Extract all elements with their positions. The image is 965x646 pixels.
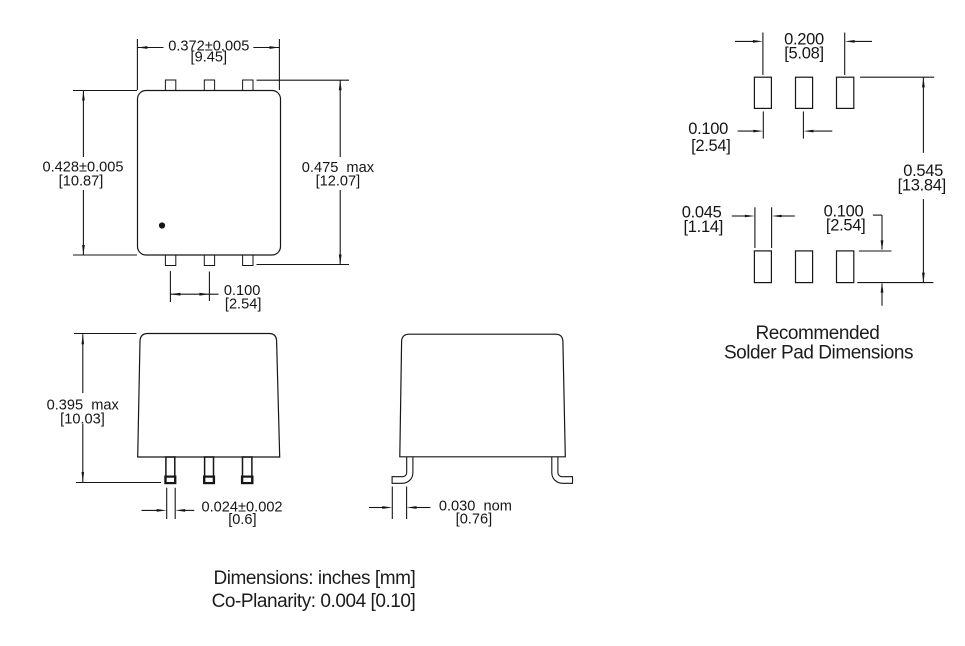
front view: lead 3 solder tip bbox=[242, 477, 252, 484]
solder pad bottom row: pad 5 bbox=[796, 251, 813, 283]
front view: lead 2 bbox=[205, 457, 214, 483]
dimension 0.428 height: bottom extension line bbox=[73, 254, 137, 256]
pad dimension 0.100 pad length: upward arrow below pad bottom bbox=[881, 284, 883, 306]
pad dimension 0.100 pitch: left arrow with tail bbox=[738, 130, 755, 132]
solder pad bottom row: pad 4 bbox=[754, 251, 771, 283]
pad dimension 0.545 row span: dimension line lower segment with arrow bbox=[922, 199, 924, 283]
dimension 0.395 max height: dimension line upper segment with arrow bbox=[82, 334, 84, 393]
front view: package body outline (tapered sides, rounded top) bbox=[138, 334, 280, 458]
dimension 0.030 lead thickness: right arrow with tail bbox=[416, 507, 431, 509]
solder pad top row: pad 3 bbox=[837, 77, 854, 108]
svg-text:[10.03]: [10.03] bbox=[60, 412, 105, 428]
svg-text:[2.54]: [2.54] bbox=[691, 137, 730, 155]
svg-text:Co-Planarity: 0.004 [0.10]: Co-Planarity: 0.004 [0.10] bbox=[212, 591, 416, 612]
svg-text:Solder Pad Dimensions: Solder Pad Dimensions bbox=[724, 342, 913, 363]
svg-text:[0.76]: [0.76] bbox=[456, 512, 493, 528]
top view: top lead 3 bbox=[243, 80, 253, 91]
dimension 0.100 lead pitch: right extension line bbox=[208, 272, 210, 302]
pad dimension 0.045 pad width: right extension line (pad4 right edge) bbox=[771, 207, 773, 248]
pad dimension 0.545 row span: top extension line bbox=[860, 76, 934, 78]
pad dimension 0.045 pad width: left arrow with tail bbox=[732, 215, 747, 217]
svg-text:[13.84]: [13.84] bbox=[898, 176, 946, 194]
svg-text:Recommended: Recommended bbox=[755, 323, 879, 344]
dimension 0.372 width: right extension line bbox=[278, 39, 280, 90]
dimension 0.475 max overall: bottom extension line bbox=[257, 264, 350, 266]
dimension 0.372 width: left arrow and tail bbox=[137, 47, 163, 49]
svg-text:[2.54]: [2.54] bbox=[826, 217, 865, 235]
top view: package body outline bbox=[138, 91, 281, 256]
svg-text:[1.14]: [1.14] bbox=[684, 218, 723, 236]
top view: top lead 2 bbox=[204, 80, 214, 91]
dimension 0.395 max height: top extension line bbox=[74, 333, 137, 335]
svg-text:Dimensions: inches [mm]: Dimensions: inches [mm] bbox=[213, 568, 415, 589]
solder pad top row: pad 2 bbox=[796, 77, 813, 108]
pad dimension 0.045 pad width: right arrow with tail bbox=[780, 215, 795, 217]
top view: bottom lead 2 bbox=[204, 255, 214, 266]
dimension 0.475 max overall: top extension line bbox=[257, 79, 350, 81]
front view: lead 1 bbox=[166, 457, 175, 483]
pad dimension 0.100 pad length: extension line at pad top bbox=[859, 250, 892, 252]
dimension 0.030 lead thickness: right extension line bbox=[406, 487, 408, 520]
solder pad bottom row: pad 6 bbox=[837, 251, 854, 283]
dimension 0.024 lead width: left extension line bbox=[166, 488, 168, 519]
svg-text:0.100: 0.100 bbox=[688, 120, 728, 138]
pad dimension 0.100 pitch: right extension line (pad2 center) bbox=[802, 112, 804, 139]
dimension 0.372 width: left extension line bbox=[136, 39, 138, 90]
dimension 0.475 max overall: dimension line lower segment with arrow bbox=[339, 190, 341, 265]
side view: right gull lead (bent outward right) bbox=[552, 457, 573, 483]
pad dimension 0.100 pitch: right arrow with tail bbox=[812, 130, 832, 132]
dimension 0.024 lead width: left arrow with tail bbox=[142, 509, 159, 511]
pad dimension 0.200 span: right extension line (pad3 center) bbox=[844, 33, 846, 76]
dimension 0.024 lead width: right arrow with tail bbox=[184, 509, 194, 511]
front view: lead 2 solder tip bbox=[204, 477, 214, 484]
top view: pin 1 indicator dot bbox=[159, 222, 165, 228]
dimension 0.024 lead width: right extension line bbox=[174, 488, 176, 519]
svg-text:[10.87]: [10.87] bbox=[59, 173, 104, 189]
pad dimension 0.200 span: left extension line (pad1 center) bbox=[762, 33, 764, 76]
dimension 0.030 lead thickness: left arrow with tail bbox=[369, 507, 384, 509]
dimension 0.395 max height: dimension line lower segment with arrow bbox=[82, 424, 84, 482]
pad dimension 0.200 span: right arrow with tail bbox=[854, 40, 873, 42]
svg-text:[9.45]: [9.45] bbox=[191, 50, 228, 66]
pad dimension 0.045 pad width: left extension line (pad4 left edge) bbox=[754, 207, 756, 248]
solder pad top row: pad 1 bbox=[754, 77, 771, 108]
pad dimension 0.100 pitch: left extension line (pad1 center) bbox=[762, 112, 764, 139]
svg-text:[5.08]: [5.08] bbox=[784, 45, 823, 63]
dimension 0.100 lead pitch: dimension line with arrows and tail bbox=[170, 293, 209, 295]
dimension 0.372 width: right arrow and tail bbox=[253, 47, 279, 49]
top view: bottom lead 3 bbox=[243, 255, 253, 266]
dimension 0.475 max overall: dimension line upper segment with arrow bbox=[339, 80, 341, 157]
front view: lead 3 bbox=[243, 457, 252, 483]
front view: lead 1 solder tip bbox=[165, 477, 175, 484]
dimension 0.428 height: dimension line lower segment with arrow bbox=[82, 190, 84, 255]
top view: top lead 1 bbox=[165, 80, 175, 91]
dimension 0.428 height: dimension line upper segment with arrow bbox=[82, 91, 84, 158]
svg-text:[2.54]: [2.54] bbox=[225, 296, 262, 312]
pad dimension 0.545 row span: bottom extension line bbox=[857, 282, 933, 284]
dimension 0.030 lead thickness: left extension line bbox=[391, 487, 393, 520]
dimension 0.428 height: top extension line bbox=[73, 90, 137, 92]
side view: left gull lead (bent outward left) bbox=[392, 457, 413, 483]
pad dimension 0.200 span: left arrow with tail bbox=[735, 40, 754, 42]
dimension 0.395 max height: bottom extension line (seating plane) bbox=[76, 482, 161, 484]
svg-text:[12.07]: [12.07] bbox=[316, 174, 361, 190]
pad dimension 0.100 pad length: leader from text bbox=[873, 214, 882, 216]
side view: package body outline (tapered sides, rounded top) bbox=[400, 334, 566, 457]
top view: bottom lead 1 bbox=[165, 255, 175, 266]
svg-text:[0.6]: [0.6] bbox=[228, 512, 256, 528]
dimension 0.100 lead pitch: left extension line bbox=[169, 271, 171, 302]
pad dimension 0.545 row span: dimension line upper segment with arrow bbox=[922, 77, 924, 152]
